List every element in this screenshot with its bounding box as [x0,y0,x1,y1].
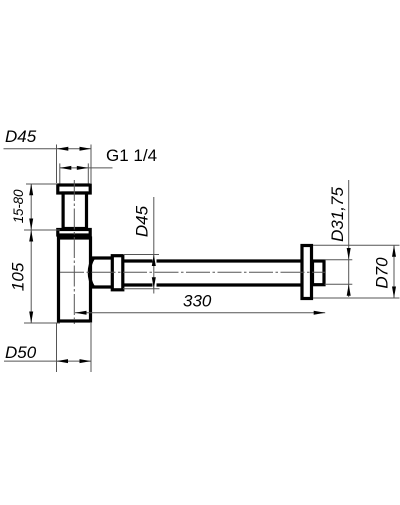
dimension 15-80 top arrow [29,184,33,196]
svg-text:D31,75: D31,75 [328,187,347,242]
dimension D50: leader line [4,360,91,362]
svg-text:G1 1/4: G1 1/4 [106,146,157,165]
dimension G right arrow [77,166,89,170]
dimension G extension line left [59,163,61,183]
svg-text:330: 330 [183,292,212,311]
dimension D45 ring extension line top [123,254,159,256]
dimension D45 left arrow [57,147,69,151]
coupling nut [58,230,90,236]
dimension D45 ring top arrow [152,255,156,267]
dimension D70: dimension line [393,245,395,298]
vertical centerline of inlet pipe [73,180,75,324]
dimension D45 extension line right [90,145,92,184]
dimension D31,75 top arrow (outside, pointing down) [347,248,351,260]
dimension G left arrow [60,166,72,170]
outlet pipe bottom wall [123,283,153,286]
dimension 105 top arrow [29,230,33,242]
dimension 15-80 extension line bottom [24,229,60,231]
dimension D70 extension line top [313,244,400,246]
bottle body [59,238,91,321]
inlet pipe body [63,193,86,229]
horizontal centerline of outlet pipe [60,271,325,273]
dimension 15-80 extension line top [26,183,58,185]
dimension G extension line right [87,163,89,183]
wall flange [302,246,312,299]
wall pipe stub [313,261,325,285]
dimension D50 left arrow [57,359,69,363]
dimension D45 ring bottom arrow [152,277,156,289]
dimension D31,75 bottom arrow (outside, pointing up) [347,284,351,296]
dimension 330 right arrow [314,311,326,315]
dimension 105 bottom arrow [29,312,33,324]
svg-text:D45: D45 [133,205,152,237]
dimension G1 1/4: leader line [60,167,113,169]
dimension 15-80 bottom arrow [29,219,33,231]
dimension D45 extension line left [56,145,58,184]
dimension 330: dimension line [75,312,325,314]
dimension D45 (ring): dimension line [153,197,155,294]
dimension 105 extension line bottom [24,322,60,324]
dimension D50 right arrow [80,359,92,363]
outlet pipe top wall [123,259,153,262]
dimension D45 right arrow [80,147,92,151]
outlet connector with curved back [89,258,93,287]
dimension D70 top arrow [392,245,396,256]
dimension 330 left arrow [75,311,87,315]
svg-text:105: 105 [9,262,28,291]
dimension D31,75 extension line bottom [325,283,353,285]
svg-text:15-80: 15-80 [11,189,26,223]
dimension D70 extension line bottom [313,297,400,299]
svg-text:D70: D70 [373,257,392,289]
dimension D31,75 extension line top [325,259,353,261]
dimension D50 extension line right [90,323,92,372]
dimension D70 bottom arrow [392,287,396,299]
dimension D45 ring extension line bottom [123,288,160,290]
svg-text:D50: D50 [5,343,37,362]
svg-text:D45: D45 [5,127,37,146]
dimension 105: dimension line [30,230,32,323]
dimension D50 extension line left [56,323,58,372]
inlet top flange [58,185,90,193]
decorative ring nut [112,256,123,290]
dimension D31,75: dimension line [348,180,350,297]
dimension D45 (top flange): leader line [4,148,92,150]
dimension 15-80: dimension line [30,184,32,230]
